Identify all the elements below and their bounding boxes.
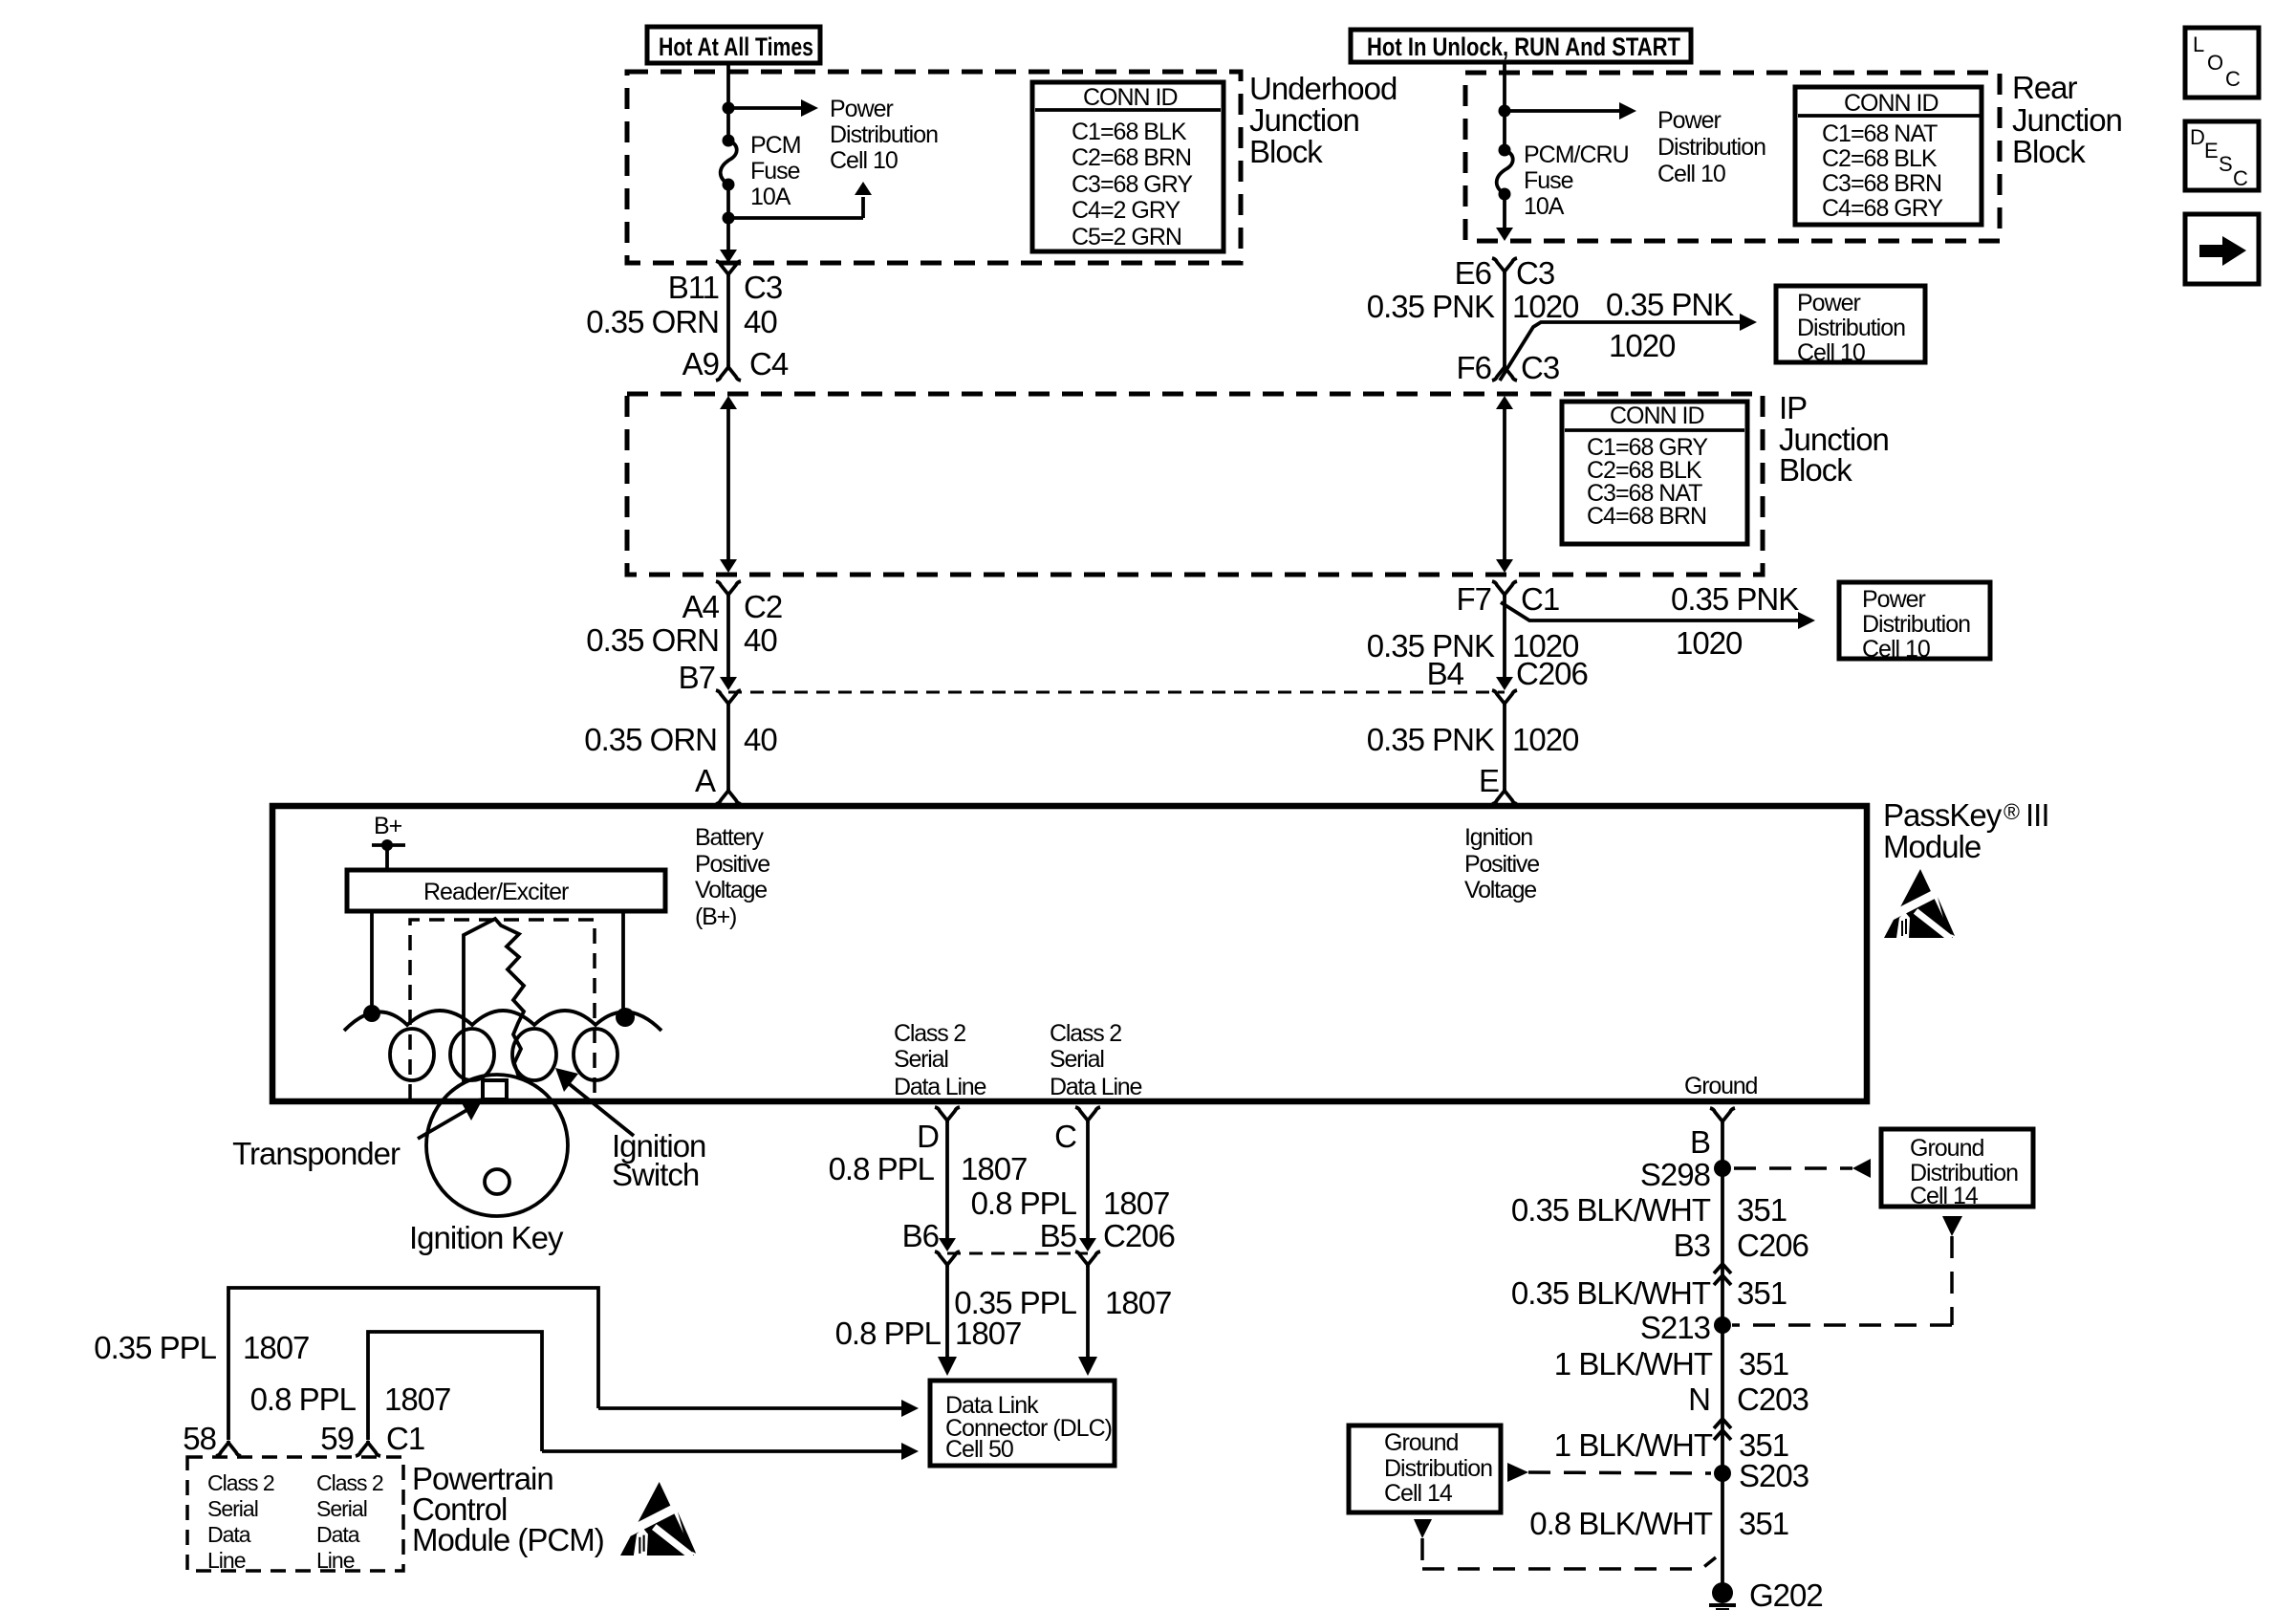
svg-text:1807: 1807 (384, 1382, 450, 1417)
svg-text:1020: 1020 (1512, 722, 1579, 757)
svg-text:Cell 10: Cell 10 (1797, 339, 1865, 366)
svg-text:(B+): (B+) (695, 903, 736, 930)
svg-text:C1=68 NAT: C1=68 NAT (1822, 120, 1938, 147)
svg-text:C: C (1054, 1119, 1076, 1154)
svg-text:Block: Block (1249, 134, 1323, 169)
svg-text:Rear: Rear (2012, 70, 2078, 105)
svg-text:0.35 BLK/WHT: 0.35 BLK/WHT (1511, 1192, 1711, 1228)
svg-text:A9: A9 (682, 346, 719, 381)
svg-text:N: N (1688, 1382, 1710, 1417)
svg-text:B7: B7 (679, 660, 715, 695)
svg-text:0.8 PPL: 0.8 PPL (829, 1151, 935, 1186)
svg-text:G202: G202 (1749, 1577, 1823, 1610)
svg-text:E: E (1479, 763, 1499, 798)
svg-text:Class 2: Class 2 (894, 1020, 965, 1047)
svg-text:Hot In Unlock, RUN And START: Hot In Unlock, RUN And START (1367, 33, 1680, 61)
svg-text:Cell 10: Cell 10 (1657, 161, 1725, 187)
svg-text:Distribution: Distribution (1657, 134, 1765, 161)
svg-text:C5=2 GRN: C5=2 GRN (1072, 224, 1181, 250)
svg-text:Block: Block (1779, 452, 1852, 488)
svg-text:C206: C206 (1516, 656, 1588, 691)
svg-text:1 BLK/WHT: 1 BLK/WHT (1554, 1346, 1713, 1382)
svg-text:Switch: Switch (612, 1157, 699, 1192)
svg-text:C4=2 GRY: C4=2 GRY (1072, 197, 1180, 224)
svg-text:0.8 PPL: 0.8 PPL (250, 1382, 357, 1417)
svg-text:Positive: Positive (695, 851, 769, 878)
svg-text:Cell 14: Cell 14 (1910, 1183, 1979, 1209)
svg-text:Fuse: Fuse (1524, 167, 1573, 194)
svg-text:CONN ID: CONN ID (1844, 90, 1939, 117)
svg-text:PassKey: PassKey (1883, 797, 2003, 833)
svg-text:0.35 ORN: 0.35 ORN (584, 722, 717, 757)
svg-text:351: 351 (1737, 1275, 1787, 1311)
svg-text:C3: C3 (744, 270, 782, 305)
svg-text:Voltage: Voltage (1464, 877, 1536, 903)
svg-text:PCM/CRU: PCM/CRU (1524, 141, 1629, 168)
svg-text:Distribution: Distribution (1797, 315, 1905, 341)
svg-text:C1: C1 (1521, 581, 1559, 617)
svg-text:Power: Power (1862, 586, 1926, 613)
svg-text:CONN ID: CONN ID (1083, 84, 1178, 111)
svg-text:C3: C3 (1516, 255, 1554, 291)
svg-text:B: B (1690, 1124, 1710, 1160)
svg-text:Distribution: Distribution (1384, 1455, 1492, 1482)
svg-text:Power: Power (1797, 290, 1861, 316)
svg-text:Cell 10: Cell 10 (830, 147, 898, 174)
svg-text:C206: C206 (1103, 1218, 1175, 1253)
svg-text:58: 58 (183, 1421, 216, 1456)
svg-text:0.35 PPL: 0.35 PPL (94, 1330, 216, 1365)
svg-text:Class 2: Class 2 (1050, 1020, 1121, 1047)
svg-text:10A: 10A (750, 184, 791, 210)
svg-text:351: 351 (1739, 1346, 1788, 1382)
svg-text:Power: Power (1657, 107, 1722, 134)
svg-text:Cell 10: Cell 10 (1862, 636, 1930, 663)
svg-text:Serial: Serial (207, 1496, 258, 1521)
svg-text:1807: 1807 (961, 1151, 1027, 1186)
svg-text:Ground: Ground (1684, 1073, 1757, 1099)
svg-text:S298: S298 (1640, 1157, 1710, 1192)
svg-text:Junction: Junction (2012, 102, 2122, 138)
svg-text:S213: S213 (1640, 1310, 1710, 1345)
svg-text:L: L (2193, 33, 2204, 56)
svg-text:Ground: Ground (1910, 1135, 1983, 1162)
svg-text:C3=68 BRN: C3=68 BRN (1822, 170, 1941, 197)
svg-text:1020: 1020 (1676, 625, 1743, 661)
svg-text:IP: IP (1779, 390, 1807, 425)
svg-text:Class 2: Class 2 (207, 1470, 274, 1495)
svg-text:C: C (2225, 67, 2241, 91)
svg-text:1020: 1020 (1609, 328, 1676, 363)
svg-text:0.35 ORN: 0.35 ORN (586, 622, 719, 658)
svg-text:Voltage: Voltage (695, 877, 767, 903)
svg-text:C: C (2233, 166, 2248, 190)
svg-text:C206: C206 (1737, 1228, 1809, 1263)
svg-text:B5: B5 (1040, 1218, 1076, 1253)
svg-text:Ignition: Ignition (1464, 824, 1532, 851)
svg-text:59: 59 (320, 1421, 354, 1456)
svg-text:1807: 1807 (1103, 1186, 1169, 1221)
svg-text:F6: F6 (1456, 350, 1491, 385)
svg-text:Data: Data (207, 1522, 251, 1547)
svg-text:Junction: Junction (1249, 102, 1359, 138)
svg-text:Cell 50: Cell 50 (945, 1436, 1013, 1463)
svg-text:Fuse: Fuse (750, 158, 800, 185)
svg-text:C4=68 BRN: C4=68 BRN (1587, 503, 1706, 530)
svg-text:E: E (2204, 139, 2219, 163)
svg-text:C2=68 BRN: C2=68 BRN (1072, 144, 1191, 171)
svg-text:C2=68 BLK: C2=68 BLK (1822, 145, 1938, 172)
svg-text:Reader/Exciter: Reader/Exciter (423, 879, 569, 905)
svg-text:Line: Line (207, 1548, 246, 1573)
svg-text:0.35 PNK: 0.35 PNK (1671, 581, 1799, 617)
svg-text:0.8 PPL: 0.8 PPL (835, 1316, 942, 1351)
svg-text:Cell 14: Cell 14 (1384, 1480, 1453, 1507)
svg-text:B3: B3 (1674, 1228, 1710, 1263)
svg-text:1020: 1020 (1512, 289, 1579, 324)
svg-text:1807: 1807 (1105, 1285, 1171, 1320)
svg-text:40: 40 (744, 622, 777, 658)
svg-text:A4: A4 (682, 589, 720, 624)
svg-text:B+: B+ (374, 813, 402, 839)
svg-text:C2: C2 (744, 589, 782, 624)
svg-text:0.35 PNK: 0.35 PNK (1606, 287, 1734, 322)
svg-text:Module: Module (1883, 829, 1981, 864)
svg-text:E6: E6 (1455, 255, 1491, 291)
svg-text:Data Line: Data Line (894, 1074, 986, 1100)
svg-text:C1: C1 (386, 1421, 424, 1456)
svg-text:F7: F7 (1456, 581, 1491, 617)
svg-text:1807: 1807 (243, 1330, 309, 1365)
svg-text:C1=68 BLK: C1=68 BLK (1072, 119, 1187, 145)
svg-text:B4: B4 (1427, 656, 1464, 691)
svg-text:0.8 BLK/WHT: 0.8 BLK/WHT (1529, 1506, 1713, 1541)
svg-text:D: D (2190, 125, 2205, 149)
svg-text:0.35 ORN: 0.35 ORN (586, 304, 719, 339)
svg-text:Data: Data (316, 1522, 360, 1547)
svg-text:0.35 PNK: 0.35 PNK (1367, 289, 1495, 324)
svg-text:CONN ID: CONN ID (1610, 402, 1704, 429)
svg-text:0.35 PNK: 0.35 PNK (1367, 722, 1495, 757)
svg-text:B6: B6 (902, 1218, 939, 1253)
svg-text:Class 2: Class 2 (316, 1470, 383, 1495)
svg-text:®: ® (2004, 799, 2020, 824)
svg-text:351: 351 (1739, 1506, 1788, 1541)
svg-text:III: III (2025, 797, 2049, 833)
svg-text:Serial: Serial (1050, 1046, 1104, 1073)
svg-text:C203: C203 (1737, 1382, 1809, 1417)
svg-text:40: 40 (744, 722, 777, 757)
svg-text:1807: 1807 (955, 1316, 1021, 1351)
svg-text:Underhood: Underhood (1249, 71, 1397, 106)
svg-text:1 BLK/WHT: 1 BLK/WHT (1554, 1427, 1713, 1463)
svg-text:Module (PCM): Module (PCM) (412, 1522, 604, 1557)
svg-text:A: A (695, 763, 716, 798)
svg-text:Power: Power (830, 96, 894, 122)
svg-text:Transponder: Transponder (232, 1136, 401, 1171)
svg-text:Data Line: Data Line (1050, 1074, 1142, 1100)
svg-text:Hot At All Times: Hot At All Times (659, 33, 813, 61)
svg-text:C4: C4 (749, 346, 789, 381)
svg-text:B11: B11 (668, 270, 719, 305)
svg-text:10A: 10A (1524, 193, 1565, 220)
svg-text:0.8 PPL: 0.8 PPL (971, 1186, 1077, 1221)
svg-text:C3: C3 (1521, 350, 1559, 385)
svg-text:D: D (917, 1119, 939, 1154)
svg-text:Line: Line (316, 1548, 355, 1573)
svg-text:Serial: Serial (316, 1496, 367, 1521)
svg-text:351: 351 (1737, 1192, 1787, 1228)
svg-text:40: 40 (744, 304, 777, 339)
svg-text:Battery: Battery (695, 824, 764, 851)
svg-text:Ground: Ground (1384, 1429, 1458, 1456)
svg-text:Serial: Serial (894, 1046, 948, 1073)
svg-text:Block: Block (2012, 134, 2086, 169)
svg-text:Distribution: Distribution (1862, 611, 1970, 638)
svg-text:PCM: PCM (750, 132, 801, 159)
svg-text:Distribution: Distribution (830, 121, 938, 148)
svg-text:O: O (2207, 51, 2223, 75)
svg-text:S203: S203 (1739, 1458, 1809, 1493)
svg-text:C4=68 GRY: C4=68 GRY (1822, 195, 1943, 222)
svg-text:S: S (2219, 152, 2233, 176)
svg-text:Positive: Positive (1464, 851, 1539, 878)
svg-text:0.35 BLK/WHT: 0.35 BLK/WHT (1511, 1275, 1711, 1311)
svg-text:Ignition Key: Ignition Key (409, 1220, 564, 1255)
svg-text:C3=68 GRY: C3=68 GRY (1072, 171, 1193, 198)
